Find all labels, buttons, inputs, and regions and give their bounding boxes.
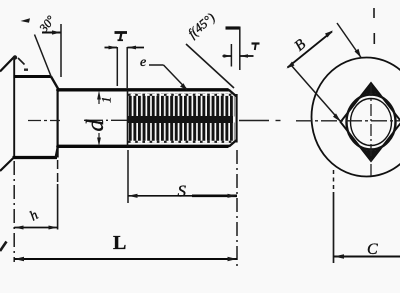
chamfer cap top corner	[361, 83, 381, 96]
B extension line to circle apex	[337, 23, 361, 58]
head chamfer top-left	[0, 57, 15, 72]
shaft bottom edge	[57, 145, 230, 148]
shaft top edge	[57, 88, 230, 91]
thread texture band upper	[128, 94, 236, 117]
B apex arrowhead	[355, 49, 362, 58]
S extension line left	[127, 150, 129, 203]
h extension dash-dot left	[13, 161, 15, 262]
head bottom edge	[13, 156, 58, 159]
f angular dimension bar	[226, 26, 240, 29]
t right extension line a	[230, 44, 232, 67]
S dimension line	[128, 195, 237, 197]
d1 stem top	[98, 95, 100, 104]
square head diamond	[341, 83, 400, 161]
tip chamfer bottom	[229, 140, 237, 147]
thread start boundary	[127, 90, 129, 147]
label t left (drawn)	[115, 33, 128, 41]
t left dim line right part	[127, 47, 144, 49]
h dimension line	[14, 227, 57, 229]
thread texture band lower	[128, 123, 236, 144]
C extension vertical dashes	[333, 170, 335, 192]
bevel extension line for 30deg dimension	[35, 35, 52, 78]
centerline side view shank	[84, 119, 127, 121]
junction blob head-shaft bottom	[56, 145, 60, 149]
d1 dimension arrow up	[97, 91, 101, 100]
end view horizontal centerline	[296, 120, 400, 122]
t right arrow left-pointing	[240, 54, 248, 58]
h arrow right	[49, 226, 58, 230]
thread minor circle thin	[351, 99, 392, 146]
t right dim line right part	[240, 55, 254, 57]
30deg dimension arrow line	[42, 32, 61, 34]
white mask tip top	[228, 88, 239, 98]
S dim thick right part	[192, 194, 237, 197]
30deg extension vertical line	[60, 24, 62, 77]
head bevel bottom-right corner	[56, 147, 58, 158]
head chamfer bottom-left	[0, 158, 14, 172]
30deg arrowhead	[52, 30, 61, 34]
30deg small left arrow near text	[21, 18, 31, 23]
label t right (drawn)	[252, 44, 260, 51]
thread white row top	[128, 94, 233, 96]
h extension right dashes	[57, 160, 59, 184]
L dimension line	[14, 258, 237, 260]
thread white row bottom	[128, 141, 233, 143]
head right face	[56, 89, 58, 158]
junction blob head-shaft top	[56, 88, 60, 92]
end view outer circle	[312, 58, 400, 177]
thread major circle bold	[347, 95, 396, 150]
h extension right solid	[57, 184, 59, 230]
centerline side view left	[28, 120, 60, 122]
thread top row dark dashes	[128, 94, 233, 96]
C extension vertical solid	[333, 192, 335, 263]
centerline dot right of tip	[276, 120, 281, 122]
white mask tip bottom	[228, 139, 239, 148]
e leader horizontal	[149, 64, 164, 66]
h arrow left	[14, 226, 23, 230]
B arrow lower-left	[287, 62, 295, 69]
thread middle dark band	[128, 116, 234, 123]
d1 stem bottom	[98, 133, 100, 142]
C dimension line	[334, 256, 400, 258]
end view vertical centerline	[370, 84, 372, 176]
B corner arrowhead	[333, 113, 341, 122]
small dot near head corner	[24, 69, 28, 71]
head bevel top-right 30deg edge	[51, 77, 59, 91]
corner blob head top-left	[13, 55, 17, 59]
head left face	[13, 57, 15, 158]
t left arrow left-pointing	[127, 46, 136, 50]
centerline side view right of tip	[239, 120, 269, 122]
small tick near head corner	[18, 58, 25, 65]
L arrow left	[14, 257, 24, 261]
vertical extension above end view dash b	[373, 33, 375, 44]
vertical extension above end view dash a	[373, 8, 375, 18]
C arrow	[334, 254, 345, 259]
e leader diagonal	[164, 65, 187, 89]
e leader arrow	[180, 83, 188, 90]
t left dimension extension line b	[126, 47, 128, 88]
B arrow upper-right	[325, 31, 333, 38]
head top edge	[14, 75, 52, 78]
t left dimension extension line a	[116, 47, 118, 86]
d1 dimension arrow down	[97, 138, 101, 147]
stray tick bottom-left edge	[0, 242, 7, 252]
t right dim line left part	[223, 55, 232, 57]
S arrow left	[128, 194, 138, 198]
chamfer cap bottom corner	[361, 148, 381, 161]
t left arrow right-pointing	[109, 46, 118, 50]
f leader diagonal 45deg	[186, 44, 234, 88]
t right arrow right-pointing	[224, 54, 232, 58]
L arrow right	[228, 257, 238, 261]
bolt end face	[236, 94, 238, 143]
f extension vertical	[239, 27, 241, 71]
tip chamfer top	[229, 90, 237, 97]
B extension line from left corner	[291, 65, 341, 122]
t left dim line left part	[105, 47, 118, 49]
S arrow right	[228, 194, 238, 198]
L right extension dash-dot	[236, 150, 238, 270]
thread bottom row dark dashes	[128, 141, 233, 143]
B dimension line	[288, 32, 333, 68]
